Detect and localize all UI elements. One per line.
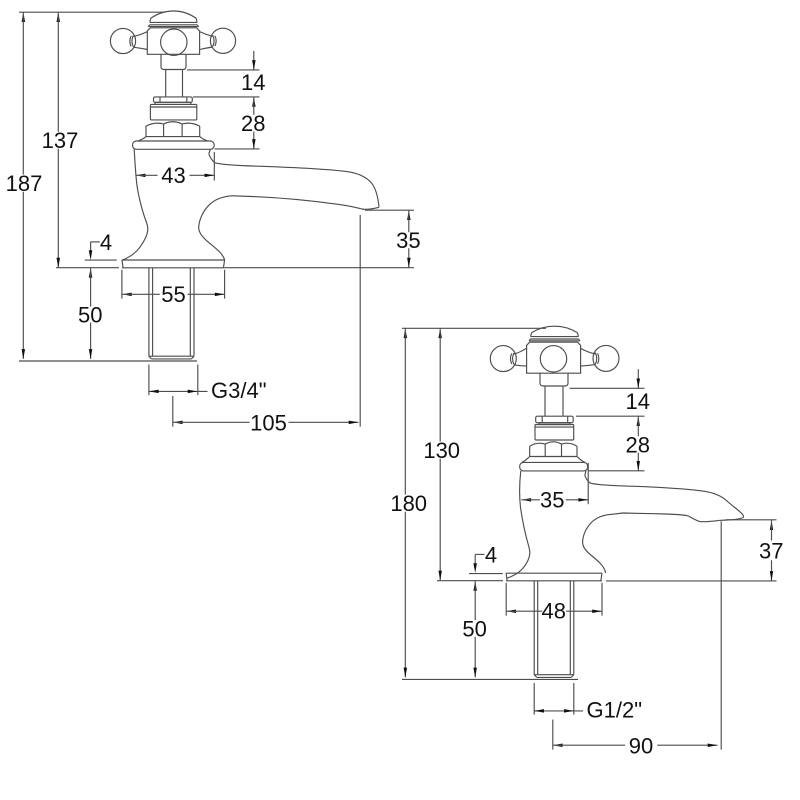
svg-text:105: 105 <box>250 411 287 436</box>
svg-text:G1/2": G1/2" <box>587 698 643 723</box>
svg-text:137: 137 <box>42 128 79 153</box>
svg-text:4: 4 <box>100 230 112 255</box>
svg-text:50: 50 <box>462 617 486 642</box>
svg-text:43: 43 <box>161 163 185 188</box>
svg-text:35: 35 <box>540 487 564 512</box>
svg-text:28: 28 <box>241 111 265 136</box>
svg-text:55: 55 <box>161 282 185 307</box>
svg-text:G3/4": G3/4" <box>211 378 267 403</box>
svg-text:28: 28 <box>625 432 649 457</box>
svg-text:4: 4 <box>485 543 497 568</box>
svg-text:14: 14 <box>625 389 649 414</box>
svg-text:187: 187 <box>6 171 43 196</box>
svg-text:14: 14 <box>241 70 265 95</box>
svg-text:130: 130 <box>423 438 460 463</box>
svg-text:90: 90 <box>629 733 653 758</box>
svg-text:37: 37 <box>759 538 783 563</box>
svg-text:48: 48 <box>542 599 566 624</box>
svg-text:180: 180 <box>390 491 427 516</box>
